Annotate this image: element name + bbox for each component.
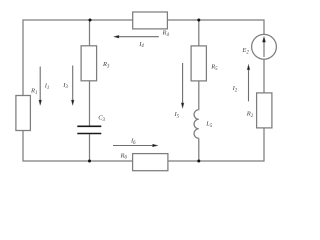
svg-text:I2: I2: [232, 85, 238, 93]
current arrow I1: [39, 67, 42, 106]
node junction bottom-left: [88, 160, 91, 163]
source E2 circle: [252, 34, 277, 59]
wire top left segment: [23, 20, 133, 96]
current arrow I6: [113, 144, 158, 147]
wire mid-right branch upper: [198, 20, 200, 46]
node junction top-left: [89, 19, 92, 22]
svg-text:L5: L5: [205, 121, 213, 129]
svg-text:R6: R6: [120, 152, 128, 160]
node junction bottom-right: [197, 160, 200, 163]
svg-text:R4: R4: [162, 29, 170, 37]
svg-text:R1: R1: [30, 87, 37, 95]
svg-text:I1: I1: [44, 83, 50, 91]
resistor R2: [257, 93, 272, 128]
svg-text:I6: I6: [130, 137, 136, 145]
wire mid-left branch C3-to-bottom: [89, 134, 91, 161]
current arrow I3: [71, 66, 74, 106]
source E2 internal arrow: [262, 36, 265, 57]
svg-text:R2: R2: [246, 111, 254, 119]
resistor R5: [191, 46, 206, 81]
wire top right segment: [167, 20, 264, 34]
wire mid-left branch R3-to-C3: [89, 81, 91, 126]
svg-text:E2: E2: [241, 47, 249, 55]
svg-text:C3: C3: [98, 115, 105, 123]
node junction top-right: [197, 19, 200, 22]
current arrow I4: [114, 35, 159, 38]
wire bottom right segment: [168, 128, 264, 161]
capacitor C3 plate top: [77, 125, 101, 127]
inductor L5: [194, 110, 199, 139]
resistor R6: [133, 154, 168, 171]
svg-text:R3: R3: [102, 61, 110, 69]
current arrow I2: [247, 64, 250, 101]
wire mid-right branch L5-to-bottom: [198, 138, 200, 161]
wire left lower segment: [23, 131, 133, 162]
capacitor C3 plate bottom: [77, 133, 101, 135]
wire right source-to-R2 segment: [263, 59, 265, 93]
svg-text:R5: R5: [210, 64, 218, 72]
resistor R3: [81, 46, 97, 81]
resistor R1: [16, 96, 31, 131]
resistor R4: [133, 12, 168, 29]
svg-text:I3: I3: [62, 82, 68, 90]
current arrow I5: [181, 63, 184, 108]
svg-text:I4: I4: [138, 41, 144, 49]
wire mid-left branch upper: [89, 20, 91, 46]
svg-text:I5: I5: [174, 111, 180, 119]
wire mid-right branch R5-to-L5: [198, 81, 200, 110]
